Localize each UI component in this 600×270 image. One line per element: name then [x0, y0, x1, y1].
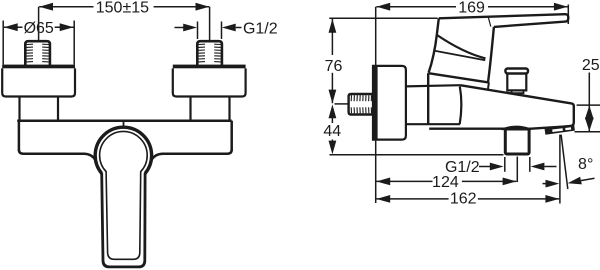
dimension G1/2 side extension line left [504, 157, 506, 172]
right connector front [191, 97, 230, 121]
diverter knob cap [505, 69, 528, 74]
dimension 25 line [588, 73, 590, 132]
handle lever outer silhouette front [102, 173, 145, 267]
lever blade tick [488, 17, 491, 26]
svg-text:76: 76 [325, 58, 343, 75]
shower outlet port [505, 129, 529, 154]
dimension 169 left arrowhead [376, 3, 390, 11]
left escutcheon flange top bar [2, 65, 75, 69]
aerator outlet bar [544, 124, 575, 134]
node centerline left pipe [38, 7, 40, 42]
dimension 76 line and arrows [329, 19, 337, 104]
body neck side [406, 85, 460, 124]
svg-text:G1/2: G1/2 [243, 20, 278, 37]
right escutcheon flange body [173, 68, 246, 96]
wall flange side face bar [372, 66, 377, 140]
cartridge column right edge [460, 86, 462, 124]
svg-text:25: 25 [582, 57, 600, 74]
wall extension line [375, 7, 377, 203]
dimension 124 left arrowhead [376, 178, 390, 186]
cartridge ring line [428, 73, 489, 82]
handle lever inner contour front [100, 131, 148, 259]
dimension 169 right extension line [567, 5, 569, 25]
left escutcheon flange body [2, 68, 75, 96]
lever chamfer line [437, 35, 486, 59]
right supply pipe thread front [197, 41, 222, 65]
cartridge ring right edge [488, 83, 489, 90]
angle 8 vertical reference line [559, 135, 561, 204]
diverter knob body [507, 74, 526, 91]
dimension 150±15 left arrowhead [39, 3, 53, 11]
angle 8 left arrow [543, 180, 560, 188]
dimension 124 right arrowhead [503, 178, 517, 186]
handle dome outer arc front [95, 127, 151, 173]
dimension 44 bottom extension line [330, 154, 504, 156]
dimension G1/2 side right arrow into outlet [479, 163, 504, 171]
dimension 150±15 line [39, 6, 209, 8]
svg-text:169: 169 [458, 0, 485, 16]
svg-text:162: 162 [450, 190, 477, 207]
outlet centerline extension [516, 157, 518, 183]
dimension 124 line [376, 180, 516, 182]
svg-text:8°: 8° [578, 156, 593, 173]
dimension 169 right arrowhead [554, 3, 568, 11]
shower outlet bump [502, 126, 532, 129]
lever chamfer lower line [435, 51, 485, 60]
dimension 44 line and arrows [329, 104, 337, 154]
node centerline right pipe [209, 7, 211, 41]
dimension Ø65 right arrowhead [55, 23, 74, 31]
lever back edge side [488, 27, 494, 83]
lever left edge side [429, 18, 439, 73]
dimension 150±15 right arrowhead [196, 3, 210, 11]
lever blade side [439, 14, 569, 27]
dimension 25 up arrowhead [585, 105, 594, 119]
dimension 76 top extension line [329, 17, 437, 19]
dimension Ø65 left arrowhead [4, 23, 23, 31]
dimension 25 top extension line [577, 104, 600, 106]
svg-text:44: 44 [323, 123, 341, 140]
pipe center extension line side [335, 103, 349, 105]
angle 8 slanted reference line [561, 135, 568, 189]
dimension 162 right arrowhead [545, 195, 559, 203]
dimension 162 line [376, 198, 559, 200]
dimension G1/2 front extension line left [197, 22, 199, 40]
dimension 162 left arrowhead [376, 195, 390, 203]
right escutcheon flange top bar [173, 65, 246, 69]
mixer body front [17, 121, 232, 161]
dimension G1/2 side left arrow from right [531, 163, 557, 171]
dimension 25 bottom extension line [575, 131, 600, 133]
svg-text:150±15: 150±15 [96, 0, 149, 16]
spout outline side [429, 85, 574, 129]
svg-text:124: 124 [432, 174, 459, 191]
dimension 25 down arrowhead [585, 118, 594, 132]
svg-text:Ø65: Ø65 [24, 20, 54, 37]
handle center tick front [123, 122, 125, 128]
wall flange side body [373, 66, 406, 140]
left supply pipe thread front [25, 41, 50, 65]
cartridge column left edge [427, 73, 429, 124]
dimension 169 line [376, 6, 567, 8]
dimension Ø65 extension line right [73, 21, 75, 65]
dimension G1/2 front extension line right [221, 22, 223, 40]
left connector front [20, 97, 59, 121]
diverter knob foot [512, 90, 524, 93]
dimension G1/2 side extension line right [529, 157, 531, 172]
dimension Ø65 extension line left [2, 21, 4, 65]
dimension G1/2 front left arrow [175, 24, 198, 32]
angle 8 right arrow [568, 177, 595, 185]
supply pipe thread side [349, 94, 373, 115]
dimension G1/2 front right arrow [222, 24, 242, 32]
